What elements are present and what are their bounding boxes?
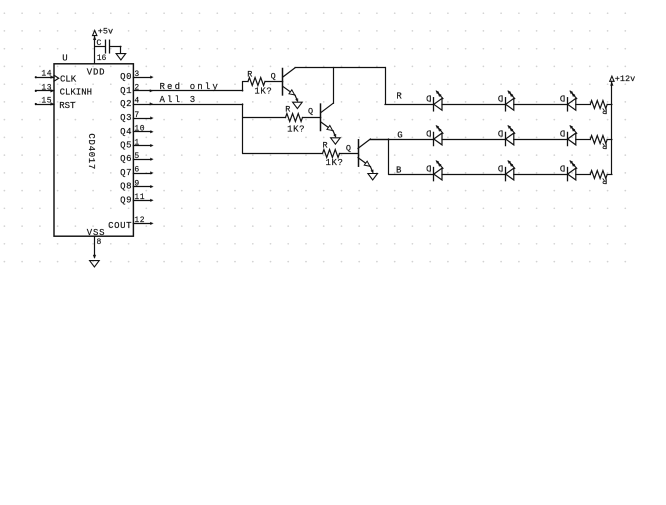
wire +12v rail vertical: [611, 81, 614, 174]
svg-text:R: R: [602, 106, 607, 116]
svg-text:D: D: [560, 163, 565, 173]
svg-text:10: 10: [134, 125, 145, 134]
svg-text:C: C: [96, 38, 101, 48]
pin 3 Q0 wire stub: [133, 76, 153, 78]
wire net All-3 from Q2: [133, 103, 242, 105]
pin number 8: [97, 238, 102, 247]
capacitor C1 plates: [106, 40, 110, 53]
svg-text:R: R: [247, 69, 252, 79]
wire top rail down to R row: [385, 68, 387, 105]
net label G: [397, 130, 402, 140]
ground symbol at Q3 emitter: [368, 174, 378, 180]
label R of R3: [323, 140, 328, 150]
svg-text:Q0: Q0: [120, 72, 132, 82]
wire to resistor R3: [243, 153, 323, 155]
svg-text:D: D: [498, 163, 503, 173]
LED DR1: [434, 91, 444, 111]
label D of LED DG2: [498, 127, 503, 137]
label Q1: [120, 86, 132, 96]
wire B row seg1: [389, 174, 434, 176]
pin number 3: [134, 70, 139, 79]
pin 11 Q9 wire stub: [133, 199, 153, 201]
label Q0: [120, 72, 132, 82]
label D of LED DB2: [498, 163, 503, 173]
pin number 14: [41, 70, 52, 79]
resistor R1 1K: [248, 78, 265, 86]
pin number 16: [97, 54, 107, 63]
transistor Q1 (NPN): [283, 68, 296, 96]
svg-text:D: D: [560, 93, 565, 103]
wire B row seg2: [442, 174, 506, 176]
pin number 2: [134, 84, 139, 93]
svg-text:14: 14: [41, 70, 52, 79]
label COUT: [108, 221, 132, 231]
label D of LED DR1: [426, 93, 431, 103]
svg-text:1K?: 1K?: [287, 124, 305, 134]
pin number 1: [134, 138, 139, 147]
svg-text:Q1: Q1: [120, 86, 132, 96]
LED DG1: [434, 125, 444, 145]
capacitor C1 right lead wire: [110, 46, 121, 53]
label D of LED DG1: [426, 127, 431, 137]
wire Q1 collector top rail: [295, 67, 385, 69]
label D of LED DG3: [560, 127, 565, 137]
label Q5: [120, 141, 132, 151]
net label All 3: [160, 95, 198, 105]
label R of series resistor R row (rotated): [602, 106, 607, 116]
wire resistor R2 to base: [303, 117, 321, 119]
resistor R-B (series): [590, 171, 607, 179]
wire emitter Q2 to ground: [333, 131, 336, 137]
wire to resistor R1: [243, 81, 248, 83]
pin number 12: [134, 216, 145, 225]
label +12v: [615, 74, 635, 84]
label U (reference designator): [62, 53, 67, 63]
wire jog up to R1: [242, 82, 244, 91]
label Q8: [120, 182, 132, 192]
clock input triangle on CLK: [54, 75, 59, 81]
svg-text:Q9: Q9: [120, 195, 132, 205]
resistor R3 1K: [323, 150, 340, 158]
svg-text:+12v: +12v: [615, 74, 635, 84]
LED DB3: [568, 161, 577, 181]
svg-text:1K?: 1K?: [254, 87, 272, 97]
transistor Q2 (NPN): [321, 103, 334, 131]
pin 7 Q3 wire stub: [133, 117, 153, 119]
label D of LED DB3: [560, 163, 565, 173]
LED DG2: [506, 125, 515, 145]
label D of LED DR2: [498, 93, 503, 103]
label R of R1: [247, 69, 252, 79]
net label R: [396, 91, 402, 101]
op-amp U1 body (CD4017 counter IC U): [54, 64, 133, 236]
svg-text:COUT: COUT: [108, 221, 132, 231]
label VDD (pin name): [87, 67, 105, 77]
wire G row seg1: [370, 139, 433, 141]
ground symbol at capacitor: [116, 54, 126, 60]
net label B: [396, 165, 402, 175]
transistor Q3 (NPN): [358, 139, 370, 167]
resistor R-G (series): [590, 136, 607, 144]
pin 10 Q4 wire stub: [133, 131, 153, 133]
ground symbol at Q1 emitter: [293, 102, 303, 108]
wire G row to +12v rail: [607, 139, 612, 141]
value 1K? of R2: [287, 124, 305, 134]
wire G row seg3: [514, 139, 568, 141]
svg-text:Q: Q: [271, 71, 276, 81]
net label Red only: [160, 82, 220, 92]
svg-text:D: D: [498, 127, 503, 137]
pin 13 CLKINH wire stub: [35, 90, 54, 93]
svg-text:13: 13: [41, 83, 52, 92]
capacitor C1 left lead wire: [95, 46, 106, 48]
pin number 15: [41, 97, 52, 106]
label D of LED DR3: [560, 93, 565, 103]
svg-text:Q: Q: [346, 144, 351, 154]
LED DR3: [568, 91, 577, 111]
svg-text:D: D: [498, 93, 503, 103]
svg-text:R: R: [396, 91, 402, 101]
pin number 4: [134, 97, 139, 106]
pin number 11: [134, 193, 145, 202]
svg-text:R: R: [602, 140, 607, 150]
label R of series resistor G row (rotated): [602, 140, 607, 150]
resistor R-R (series): [590, 101, 607, 109]
svg-text:D: D: [560, 127, 565, 137]
svg-text:CLKINH: CLKINH: [60, 88, 92, 98]
wire emitter Q1 to ground: [295, 95, 298, 101]
label Q of transistor near R1: [271, 71, 276, 81]
label CD4017 (part value, rotated): [86, 133, 96, 170]
wire G row seg2: [442, 139, 506, 141]
svg-text:8: 8: [97, 238, 102, 247]
svg-text:1K?: 1K?: [326, 158, 344, 168]
label CLKINH: [60, 88, 92, 98]
wire All-3 vertical bus: [242, 104, 244, 153]
resistor R2 1K: [286, 114, 303, 122]
svg-text:15: 15: [41, 97, 52, 106]
svg-text:U: U: [62, 53, 67, 63]
wire B row seg4: [576, 174, 590, 176]
pin 5 Q6 wire stub: [133, 158, 153, 160]
wire R row seg1: [385, 104, 434, 106]
pin number 9: [134, 179, 139, 188]
ground symbol at Q2 emitter: [331, 138, 341, 144]
value 1K? of R1: [254, 87, 272, 97]
pin 15 RST wire stub: [35, 103, 54, 106]
pin number 10: [134, 125, 145, 134]
svg-text:RST: RST: [59, 101, 76, 111]
svg-text:CD4017: CD4017: [86, 133, 96, 170]
svg-text:Q6: Q6: [120, 154, 132, 164]
svg-text:Q8: Q8: [120, 182, 132, 192]
svg-text:Red only: Red only: [160, 82, 220, 92]
svg-text:Q5: Q5: [120, 141, 132, 151]
pin 1 Q5 wire stub: [133, 144, 153, 146]
wire resistor R3 to base: [340, 153, 359, 155]
LED DB1: [434, 161, 444, 181]
ground symbol at VSS: [90, 261, 100, 267]
svg-text:Q3: Q3: [120, 113, 132, 123]
svg-text:Q4: Q4: [120, 127, 132, 137]
label Q4: [120, 127, 132, 137]
wire R row seg3: [514, 104, 568, 106]
wire resistor R1 to base: [265, 81, 283, 83]
pin 6 Q7 wire stub: [133, 172, 153, 174]
label Q9: [120, 195, 132, 205]
svg-text:+5v: +5v: [98, 27, 113, 37]
wire VSS pin 8 to ground: [93, 236, 96, 258]
label R of R2: [285, 104, 290, 114]
label Q of transistor near R3: [346, 144, 351, 154]
LED DG3: [568, 125, 577, 145]
svg-text:All 3: All 3: [160, 95, 198, 105]
label VSS (pin name): [87, 228, 105, 238]
value 1K? of R3: [326, 158, 344, 168]
label RST: [59, 101, 76, 111]
wire G row to B row riser: [388, 139, 390, 174]
wire R row to +12v rail: [607, 104, 612, 106]
label D of LED DB1: [426, 163, 431, 173]
pin number 6: [134, 166, 139, 175]
svg-text:Q: Q: [308, 107, 313, 117]
wire Q2 collector riser: [333, 68, 335, 104]
svg-text:VSS: VSS: [87, 228, 105, 238]
wire B row to +12v rail: [607, 174, 612, 176]
label R of series resistor B row (rotated): [602, 175, 607, 185]
pin number 13: [41, 83, 52, 92]
label Q2: [120, 99, 132, 109]
wire emitter Q3 to ground: [370, 167, 373, 173]
svg-text:VDD: VDD: [87, 67, 105, 77]
svg-text:D: D: [426, 93, 431, 103]
LED DB2: [506, 161, 515, 181]
power +5v port symbol: [93, 30, 97, 35]
svg-text:Q7: Q7: [120, 168, 132, 178]
power +12v port symbol: [610, 76, 614, 81]
svg-text:R: R: [602, 175, 607, 185]
svg-text:D: D: [426, 127, 431, 137]
wire +5v rail to VDD pin 16: [93, 36, 96, 64]
label Q3: [120, 113, 132, 123]
svg-text:D: D: [426, 163, 431, 173]
wire B row seg3: [514, 174, 568, 176]
wire G row seg4: [576, 139, 590, 141]
wire R row seg2: [442, 104, 506, 106]
pin 12 COUT wire stub: [133, 222, 153, 224]
wire Q3 collector to G row: [370, 139, 388, 141]
label Q7: [120, 168, 132, 178]
label Q of transistor near R2: [308, 107, 313, 117]
pin number 5: [134, 152, 139, 161]
svg-text:CLK: CLK: [60, 74, 77, 84]
svg-text:R: R: [285, 104, 290, 114]
LED DR2: [506, 91, 515, 111]
svg-text:2: 2: [134, 84, 139, 93]
pin number 7: [134, 111, 139, 120]
label C: [96, 38, 101, 48]
label Q6: [120, 154, 132, 164]
label +5v: [98, 27, 113, 37]
wire net Red-only from Q1: [133, 90, 242, 92]
label CLK: [60, 74, 77, 84]
wire to resistor R2: [243, 117, 286, 119]
svg-text:16: 16: [97, 54, 107, 63]
pin 9 Q8 wire stub: [133, 186, 153, 188]
pin 14 CLK wire stub: [35, 76, 54, 79]
svg-text:R: R: [323, 140, 328, 150]
svg-text:Q2: Q2: [120, 99, 132, 109]
wire R row seg4: [576, 104, 590, 106]
